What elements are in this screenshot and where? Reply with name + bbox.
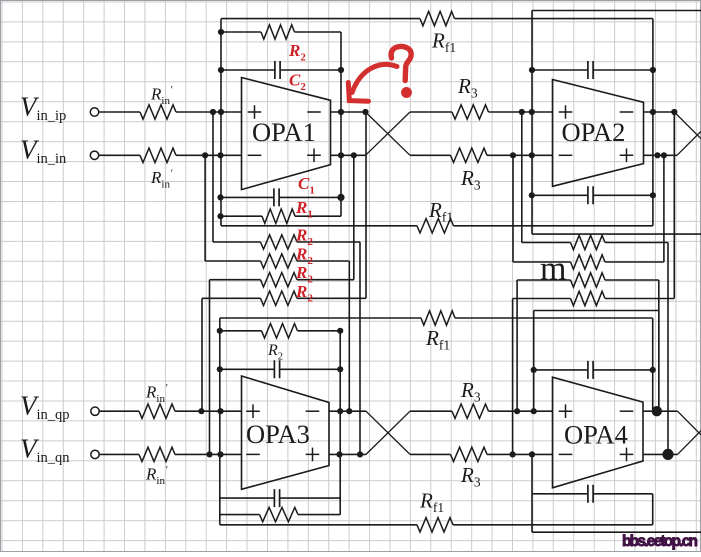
wire OPA2 out+ row [644, 111, 675, 113]
OPA4 pin + (top) [559, 404, 573, 418]
wire R2b row left [220, 330, 262, 332]
svg-text:bbs.eetop.cn: bbs.eetop.cn [622, 533, 698, 550]
svg-text:OPA4: OPA4 [564, 420, 628, 450]
wire R1 row left [221, 215, 263, 217]
wire Vin_qp lead [99, 410, 139, 412]
junction dot 27 [337, 328, 343, 334]
wire Rf1-3 left segment [220, 317, 421, 319]
capacitor OPA2 bottom [588, 186, 593, 204]
wire C2 row left [221, 69, 274, 71]
wire R2 row left [221, 31, 261, 33]
resistor Rin' (qp) [139, 404, 175, 418]
wire vert x532 qn to bottom [531, 454, 533, 532]
crossover X (OPA2 out) [674, 112, 701, 155]
wire vert x532 bus [531, 11, 533, 235]
capacitor OPA3 top [274, 360, 279, 378]
OPA2 pin + (bot out) [620, 149, 634, 163]
junction dot 38 [531, 367, 537, 373]
wire R2 bank row3 left [210, 279, 261, 281]
resistor Rin' (qn) [139, 447, 175, 461]
wire vert OPA2- to m2 [512, 155, 514, 262]
OPA3 pin - (bot) [246, 453, 260, 455]
junction dot 30 [198, 408, 204, 414]
junction dot 40 [514, 408, 520, 414]
wire m row1 left [522, 242, 571, 244]
wire R3 fourth row right [487, 453, 553, 455]
wire R3 third row right [489, 410, 553, 412]
wire left bus x221 [220, 19, 222, 226]
junction dot 42 [509, 451, 515, 457]
junction dot 35 [217, 451, 223, 457]
resistor R3 #2 [451, 148, 488, 162]
wire vert in to R2 row2 [204, 155, 206, 261]
junction dot 24 [529, 192, 535, 198]
wire Rf1-1 right segment [455, 18, 653, 20]
capacitor OPA4 top [588, 361, 593, 379]
op-amp U4 OPA4 [553, 377, 644, 488]
junction dot 1 [218, 29, 224, 35]
wire OPA4 topcap left [534, 369, 588, 371]
wire OPA4 botcap left [532, 493, 587, 495]
wire R2 bank row3 right [297, 279, 354, 281]
op-amp U2 OPA2 [553, 80, 644, 187]
terminal Vin_qn [91, 450, 99, 458]
wire OPA3 out- row [329, 453, 366, 455]
wire Vin_ip lead [99, 111, 140, 113]
wire m row4 right [605, 298, 674, 300]
wire vert m4 to ip-out [673, 112, 675, 299]
junction dot 12 [217, 194, 223, 200]
junction dot 6 [338, 109, 344, 115]
resistor R3 #1 [452, 105, 489, 119]
wire R2 row right [295, 31, 342, 33]
terminal Vin_ip [90, 108, 98, 116]
wire OPA3 botcap left [220, 497, 274, 499]
junction dot 2 [218, 67, 224, 73]
junction dot 9 [217, 152, 223, 158]
junction dot 41 [531, 408, 537, 414]
wire vert R2row3 to -out [353, 155, 355, 279]
capacitor OPA3 bottom [274, 489, 279, 507]
wire OPA2 botcap left [532, 194, 588, 196]
junction dot 23 [650, 67, 656, 73]
wire OPA2 topcap left [532, 69, 587, 71]
wire Rin' to OPA1 + [176, 111, 242, 113]
op-amp U3 OPA3 [242, 376, 330, 489]
wire vert x652.7 botcap to Rf4 [652, 494, 654, 525]
junction dot 25 [650, 192, 656, 198]
junction dot 18 [510, 152, 516, 158]
wire vert 652.7 Rf3 to outdot [652, 318, 654, 411]
junction dot C1 right (large) [337, 194, 344, 201]
junction dot 8 [202, 152, 208, 158]
resistor Rf1 (second) [417, 219, 454, 233]
resistor R2 bank #3 [261, 273, 298, 287]
wire vert R2row4 to ip-out [365, 112, 367, 298]
wire vert m3 to +out [658, 280, 660, 411]
svg-text:OPA2: OPA2 [562, 117, 626, 147]
capacitor C2 [275, 61, 280, 79]
wire OPA3 out+ row [329, 410, 366, 412]
wire R2 bank row1 left [213, 241, 261, 243]
wire Rf1-1 left segment [221, 18, 420, 20]
junction dot 10 [338, 152, 344, 158]
wire m row4 left [513, 298, 571, 300]
wire Rf1-2 left segment [221, 225, 417, 227]
crossover X (OPA4 out) [678, 411, 701, 454]
junction dot 21 [661, 152, 667, 158]
wire vert m2 to -out [663, 155, 665, 262]
resistor R2 (OPA3 feedback) [262, 324, 298, 338]
OPA3 pin + (bot out) [306, 448, 320, 462]
wire link to right edge (I) [532, 233, 701, 235]
OPA4 pin - (top out) [620, 410, 634, 412]
wire OPA4 out- row [643, 453, 678, 455]
OPA4 pin - (bot) [559, 453, 573, 455]
wire C1 row left [221, 196, 274, 198]
wire OPA3 botres right [298, 514, 340, 516]
resistor m bank #1 [571, 235, 606, 249]
wire OPA2 botcap right [594, 194, 653, 196]
junction dot 33 [346, 408, 352, 414]
wire OPA4 botcap right [594, 493, 653, 495]
junction dot 34 [206, 451, 212, 457]
wire OPA3 topcap left [220, 368, 274, 370]
terminal Vin_qp [91, 407, 99, 415]
wire Rf1-3 right segment [455, 317, 653, 319]
junction dot 5 [218, 109, 224, 115]
junction dot 16 [650, 109, 656, 115]
resistor Rf1 (fourth) [417, 518, 453, 532]
junction dot 22 [529, 67, 535, 73]
junction dot 7 [362, 109, 368, 115]
resistor R1 [262, 209, 295, 223]
junction dot 31 [217, 408, 223, 414]
capacitor C1 [274, 188, 279, 206]
wire R3 top row right [489, 111, 553, 113]
OPA2 pin - (top out) [620, 111, 634, 113]
op-amp U1 OPA1 [242, 78, 331, 190]
resistor R2 bank #2 [261, 254, 298, 268]
wire right bus x340 (OPA3 fb) [339, 331, 341, 515]
wire vert m1 to qn-out [667, 243, 669, 455]
svg-text:OPA3: OPA3 [246, 419, 310, 449]
resistor Rf1 (top) [420, 11, 455, 25]
wire OPA4 out+ row [643, 410, 678, 412]
wire Rf1-2 right segment [454, 225, 653, 227]
junction dot 13 [217, 213, 223, 219]
wire vert 658.8 down (linkA+m3) [658, 311, 660, 412]
wire m row2 right [605, 261, 664, 263]
resistor Rin' (in) [140, 148, 176, 162]
wire R2b row right [298, 330, 341, 332]
svg-text:m: m [540, 251, 566, 288]
junction dot 26 [217, 328, 223, 334]
wire R2 bank row2 right [297, 260, 349, 262]
wire m row3 right [605, 279, 659, 281]
resistor Rin' (ip) [140, 105, 176, 119]
wire R3 top row left [410, 111, 452, 113]
resistor R2 bank #4 [261, 291, 298, 305]
wire OPA3 topcap right [280, 368, 340, 370]
wire right bus x341 (OPA1 fb) [340, 32, 342, 216]
wire vert x652.9 (Rf1 drop) [652, 19, 654, 226]
wire m row2 left [513, 261, 571, 263]
wire R3 third row left [410, 410, 452, 412]
wire vert ip to R2 row1 [212, 112, 214, 242]
svg-text:OPA1: OPA1 [252, 117, 316, 147]
red arrow annotation [348, 64, 397, 101]
junction dot 4 [210, 109, 216, 115]
OPA3 pin - (top out) [306, 410, 320, 412]
resistor R2 (OPA1 feedback) [261, 25, 295, 39]
junction dot 32 [337, 408, 343, 414]
wire Rf1-4 right segment [453, 524, 653, 526]
wire OPA2 out- row [644, 154, 678, 156]
wire OPA4 fb top link [534, 310, 659, 312]
junction dot OPA4 out+ (large) [652, 406, 662, 416]
OPA2 pin + (top) [559, 105, 573, 119]
OPA4 pin + (bot out) [620, 448, 634, 462]
wire Rin' to OPA3 + [175, 410, 242, 412]
wire C2 row right [281, 69, 341, 71]
wire C1 row right [280, 196, 341, 198]
red question mark [391, 46, 411, 95]
wire vert R2row2 to qp-out [348, 261, 350, 411]
OPA1 pin - (bot) [248, 154, 262, 156]
junction dot 20 [654, 152, 660, 158]
wire vert R2 row4 to qp [201, 298, 203, 411]
wire OPA2 topcap right [594, 69, 653, 71]
wire bottom bus to edge [532, 531, 701, 533]
wire OPA4 topcap right [594, 369, 653, 371]
wire vert R2 row3 to qn [209, 280, 211, 455]
junction dot 39 [650, 367, 656, 373]
wire m row1 right [605, 242, 668, 244]
OPA3 pin + (top) [246, 404, 260, 418]
wire OPA1 out+ row [331, 111, 366, 113]
wire Rf1-4 left segment [220, 524, 417, 526]
junction dot OPA4 out- (large) [662, 449, 673, 460]
junction dot 17 [671, 109, 677, 115]
wire vert OPA2+ to m1 [521, 112, 523, 243]
wire Rin' to OPA1 - [176, 154, 242, 156]
wire R2 bank row2 left [205, 260, 260, 262]
junction dot 37 [357, 451, 363, 457]
wire R3 second row right [487, 154, 553, 156]
capacitor OPA2 top [588, 61, 593, 79]
wire top bus to right edge [532, 10, 701, 12]
wire left bus x219.8 [219, 318, 221, 525]
wire Vin_in lead [99, 154, 140, 156]
resistor R3 #3 [452, 404, 489, 418]
resistor R2 bank #1 [261, 235, 298, 249]
wire OPA1 out- row [331, 154, 366, 156]
resistor m bank #2 [571, 255, 606, 269]
junction dot 19 [529, 152, 535, 158]
wire m row3 left [517, 279, 570, 281]
wire R1 row right [295, 215, 341, 217]
junction dot 3 [338, 67, 344, 73]
junction dot 14 [519, 109, 525, 115]
crossover X (Q path) [366, 411, 410, 454]
wire vert 533.7 down to qp [533, 311, 535, 412]
wire Rin' to OPA3 - [175, 453, 242, 455]
wire vert R2row1 to qn-out [359, 242, 361, 454]
OPA1 pin + (top) [248, 105, 262, 119]
resistor m bank #3 [571, 273, 606, 287]
junction dot 28 [217, 366, 223, 372]
terminal Vin_in [90, 151, 98, 159]
junction dot 15 [529, 109, 535, 115]
OPA2 pin - (bot) [559, 154, 573, 156]
wire OPA3 botcap right [280, 497, 340, 499]
wire R3 second row left [410, 154, 451, 156]
resistor Rf1 (third) [421, 311, 455, 325]
resistor m bank #4 [571, 291, 606, 305]
junction dot 29 [337, 366, 343, 372]
wire R2 bank row4 left [202, 297, 261, 299]
wire vert m3 to OPA4 qp [516, 280, 518, 411]
capacitor OPA4 bottom [588, 485, 593, 503]
resistor OPA3 bottom [260, 507, 299, 521]
junction dot 11 [351, 152, 357, 158]
wire vert m4 to OPA4 qn [512, 299, 514, 455]
resistor R3 #4 [451, 447, 488, 461]
wire R2 bank row1 right [297, 241, 360, 243]
junction dot 43 [529, 451, 535, 457]
wire R2 bank row4 right [297, 297, 366, 299]
wire R3 fourth row left [410, 453, 451, 455]
crossover X (I path) [366, 112, 411, 155]
wire OPA3 botres left [220, 514, 260, 516]
wire Vin_qn lead [99, 453, 139, 455]
junction dot 36 [336, 451, 342, 457]
OPA1 pin - (top out) [307, 111, 321, 113]
OPA1 pin + (bot out) [307, 149, 321, 163]
